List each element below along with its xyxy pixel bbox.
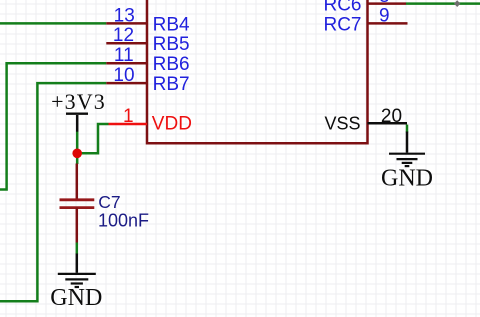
power symbol +3V3: [51, 89, 106, 132]
svg-text:RC6: RC6: [323, 0, 361, 15]
svg-text:+3V3: +3V3: [51, 89, 106, 114]
svg-text:GND: GND: [50, 285, 102, 311]
svg-text:20: 20: [381, 106, 402, 127]
pin 1 VDD: [109, 106, 192, 135]
svg-text:RB5: RB5: [153, 34, 190, 55]
svg-text:12: 12: [113, 25, 134, 46]
ground symbol GND (right): [381, 132, 433, 192]
svg-text:13: 13: [114, 5, 135, 26]
svg-text:RC7: RC7: [323, 14, 361, 35]
pin 10 RB7: [106, 65, 189, 95]
junction dot: [72, 149, 82, 159]
svg-text:100nF: 100nF: [98, 210, 149, 230]
wire +3V3 vertical through junction: [76, 132, 79, 165]
pin 11 RB6: [106, 45, 189, 75]
wire +3V3 to pin 1 VDD: [77, 124, 108, 153]
svg-text:RB4: RB4: [153, 14, 190, 35]
svg-text:9: 9: [379, 5, 390, 26]
svg-text:1: 1: [123, 106, 134, 127]
capacitor C7 100nF: [60, 164, 150, 243]
pin 20 VSS: [324, 106, 407, 133]
pin 8 RC6: [323, 0, 406, 15]
svg-text:C7: C7: [98, 192, 120, 212]
svg-text:RB7: RB7: [153, 74, 190, 95]
ground symbol GND (left): [50, 254, 102, 312]
pin 12 RB5: [106, 25, 189, 55]
svg-text:VDD: VDD: [152, 114, 192, 135]
svg-text:10: 10: [113, 65, 134, 86]
junction marker on RC6 wire: [454, 0, 460, 7]
svg-text:GND: GND: [381, 165, 433, 191]
wire C7 to GND: [76, 243, 79, 255]
wire net RB4 (left, to pin 13): [0, 22, 106, 25]
pin 13 RB4: [106, 5, 190, 35]
pin 9 RC7: [323, 5, 407, 35]
svg-text:RB6: RB6: [153, 54, 190, 75]
svg-text:VSS: VSS: [324, 113, 360, 133]
svg-text:11: 11: [114, 45, 134, 66]
wire pin 20 VSS to GND: [406, 125, 409, 133]
wire net RB7 (left, to pin 10): [0, 83, 106, 301]
wire net RB6 (left, to pin 11): [0, 63, 106, 189]
IC U1 body: [147, 0, 368, 143]
wire net RC6 (right, from pin 8): [406, 2, 480, 5]
